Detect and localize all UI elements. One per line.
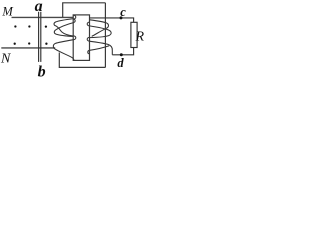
svg-text:c: c <box>120 5 126 19</box>
field dot B6 <box>45 43 47 45</box>
field dot B2 <box>28 25 30 27</box>
secondary coil (right winding) <box>87 20 112 55</box>
field dot B4 <box>14 43 16 45</box>
field dot B1 <box>14 25 16 27</box>
svg-text:b: b <box>38 63 46 78</box>
wire rail M <box>12 16 74 18</box>
secondary turn 1: lead from line, right cap, steep return <box>90 20 109 37</box>
primary coil (left winding) <box>53 15 75 60</box>
secondary turn 3: stroke to final cap and drop to wire <box>90 41 113 55</box>
transformer core inner window <box>73 15 89 61</box>
wire secondary bottom lead <box>112 48 133 55</box>
svg-text:N: N <box>0 52 11 67</box>
secondary bump B <box>87 37 89 41</box>
transformer outer frame right edge <box>104 3 106 68</box>
svg-text:d: d <box>117 56 124 70</box>
svg-text:R: R <box>135 30 145 45</box>
primary turn 1 front stroke <box>54 19 73 36</box>
field dot B5 <box>28 42 30 44</box>
field dot B3 <box>45 25 47 27</box>
secondary bump C and rising end stroke <box>88 50 90 54</box>
conducting rod ab <box>39 12 41 62</box>
primary turn 3 and end sweep to core corner <box>53 40 74 61</box>
primary bump 3 <box>73 36 75 40</box>
svg-text:a: a <box>35 0 43 15</box>
wire secondary top to resistor <box>90 18 134 22</box>
wire rail N <box>1 47 55 49</box>
resistor R body <box>131 22 137 47</box>
svg-text:M: M <box>1 4 13 18</box>
primary turn 2 steep stroke <box>54 23 73 37</box>
transformer outer frame (core outer edge) <box>59 3 105 68</box>
node d junction dot <box>120 53 123 56</box>
node c junction dot <box>120 16 123 19</box>
primary top double bump <box>73 15 75 22</box>
secondary bump A <box>87 22 89 26</box>
secondary turn 2: shallow stroke, right cap, return <box>90 26 112 38</box>
